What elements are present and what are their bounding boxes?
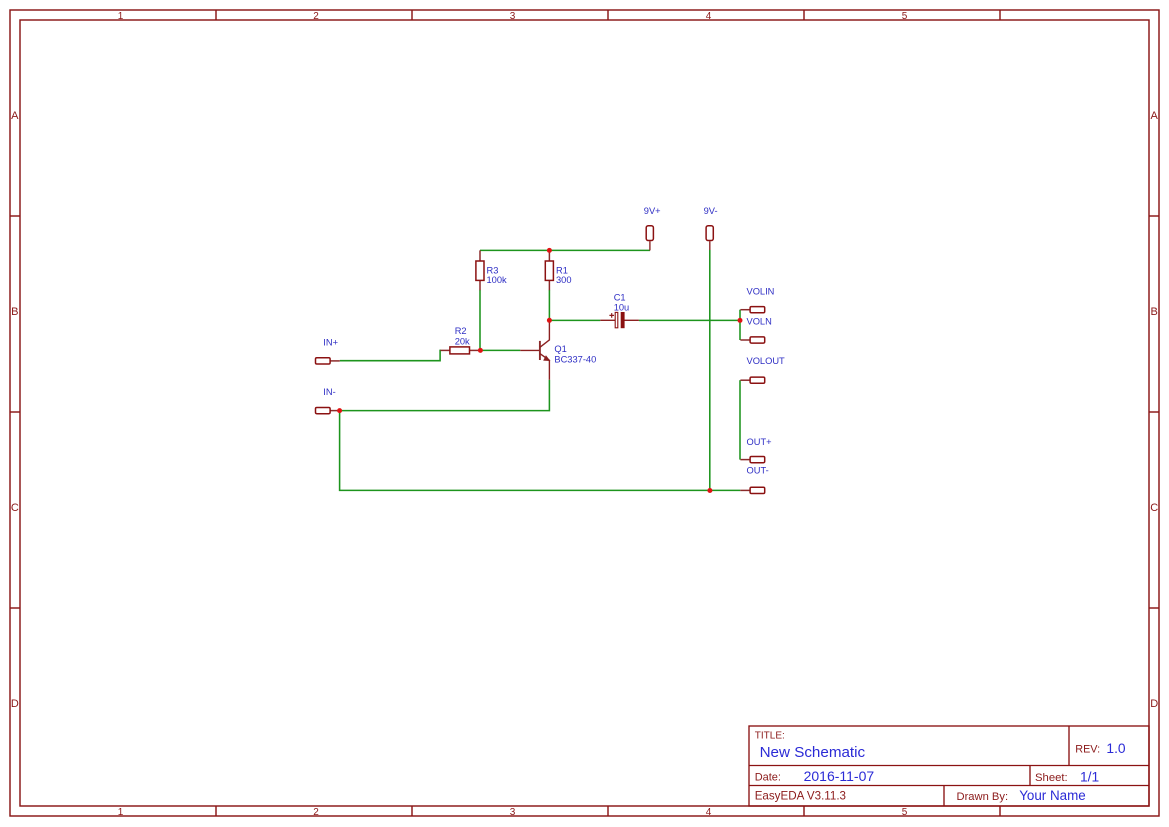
sheet value 1/1 xyxy=(1080,769,1099,784)
column tick marks bottom xyxy=(216,806,1000,816)
junction node IN- xyxy=(337,408,342,413)
connector IN- xyxy=(316,387,340,414)
title value New Schematic xyxy=(760,744,866,761)
junction node top rail R1 xyxy=(547,248,552,253)
row labels right xyxy=(1150,110,1158,710)
transistor Q1 xyxy=(520,320,596,380)
svg-text:IN-: IN- xyxy=(323,387,335,397)
wire emitter to IN- rail xyxy=(340,380,550,411)
wire IN- node down to bottom rail xyxy=(340,411,710,491)
svg-text:C: C xyxy=(11,502,19,514)
svg-text:20k: 20k xyxy=(455,336,470,346)
svg-text:TITLE:: TITLE: xyxy=(755,731,785,742)
svg-text:A: A xyxy=(11,110,19,122)
resistor R1 xyxy=(545,250,571,290)
svg-text:OUT-: OUT- xyxy=(747,466,769,476)
svg-text:100k: 100k xyxy=(487,275,508,285)
svg-text:A: A xyxy=(1151,110,1159,122)
junction node collector VOLN xyxy=(547,318,552,323)
title block label EasyEDA V3.11.3 xyxy=(755,789,846,802)
row tick marks right xyxy=(1149,216,1159,608)
svg-text:2: 2 xyxy=(313,807,319,818)
title block label Drawn By: xyxy=(957,791,1009,803)
svg-text:C1: C1 xyxy=(614,293,626,303)
title block outline xyxy=(749,726,1149,806)
svg-text:R2: R2 xyxy=(455,326,467,336)
svg-text:VOLOUT: VOLOUT xyxy=(747,356,786,366)
svg-text:B: B xyxy=(1151,306,1158,318)
svg-text:1: 1 xyxy=(118,11,124,22)
svg-text:IN+: IN+ xyxy=(323,337,338,347)
svg-text:C: C xyxy=(1150,502,1158,514)
svg-text:R1: R1 xyxy=(556,265,568,275)
svg-text:VOLIN: VOLIN xyxy=(747,287,775,297)
junction node base R2 xyxy=(478,348,483,353)
svg-text:9V-: 9V- xyxy=(704,206,718,216)
wire VOLN node to VOLN pin xyxy=(739,320,741,340)
svg-text:5: 5 xyxy=(902,807,908,818)
svg-text:10u: 10u xyxy=(614,302,630,312)
power flag 9V+ xyxy=(644,206,661,250)
column tick marks top xyxy=(216,10,1000,20)
connector VOLIN xyxy=(740,287,774,313)
resistor R2 xyxy=(441,326,481,354)
wire VOLOUT to OUT+ xyxy=(739,380,741,459)
svg-text:Q1: Q1 xyxy=(554,344,566,354)
svg-text:New Schematic: New Schematic xyxy=(760,744,866,761)
row tick marks left xyxy=(10,216,20,608)
svg-text:4: 4 xyxy=(706,11,712,22)
drawn by value Your Name xyxy=(1019,788,1085,803)
connector VOLN xyxy=(740,317,771,343)
svg-text:OUT+: OUT+ xyxy=(747,437,772,447)
wire R3 bottom to base node xyxy=(479,290,481,351)
wire top rail R3 to 9V+ xyxy=(480,249,650,251)
svg-text:2016-11-07: 2016-11-07 xyxy=(804,768,875,784)
svg-text:1: 1 xyxy=(118,807,124,818)
svg-text:9V+: 9V+ xyxy=(644,206,661,216)
wire C1 to VOLN node xyxy=(639,319,740,321)
title block label Sheet: xyxy=(1035,772,1068,784)
wire IN+ to R2 xyxy=(340,350,441,360)
date value 2016-11-07 xyxy=(804,768,875,784)
svg-text:5: 5 xyxy=(902,11,908,22)
resistor R3 xyxy=(476,250,507,290)
svg-text:BC337-40: BC337-40 xyxy=(554,354,596,364)
title block label TITLE: xyxy=(755,731,785,742)
column labels top xyxy=(118,11,908,22)
wire 9V- down to bottom rail xyxy=(709,250,711,491)
rev value 1.0 xyxy=(1106,741,1126,756)
svg-text:3: 3 xyxy=(510,807,516,818)
wire R1 bottom to collector node xyxy=(548,290,550,320)
connector IN+ xyxy=(316,337,340,364)
connector OUT+ xyxy=(740,437,771,463)
svg-text:D: D xyxy=(11,698,19,710)
svg-text:1/1: 1/1 xyxy=(1080,769,1099,784)
svg-text:VOLN: VOLN xyxy=(747,317,772,327)
column labels bottom xyxy=(118,807,908,818)
connector OUT- xyxy=(740,466,768,494)
junction node VOLN flag xyxy=(738,318,743,323)
svg-text:2: 2 xyxy=(313,11,319,22)
junction node bottom rail 9V- xyxy=(707,488,712,493)
svg-text:Drawn By:: Drawn By: xyxy=(957,791,1009,803)
title block label Date: xyxy=(755,772,781,784)
svg-text:Your Name: Your Name xyxy=(1019,788,1085,803)
wire VOLN node to VOLIN pin xyxy=(739,310,741,321)
svg-text:EasyEDA V3.11.3: EasyEDA V3.11.3 xyxy=(755,789,846,802)
power flag 9V- xyxy=(704,206,718,250)
row labels left xyxy=(11,110,19,710)
svg-text:D: D xyxy=(1150,698,1158,710)
svg-text:4: 4 xyxy=(706,807,712,818)
wire bottom rail to OUT- pin xyxy=(710,489,741,491)
wire R2 node to base pin xyxy=(480,349,520,351)
capacitor C1 xyxy=(600,293,639,328)
title block label REV: xyxy=(1075,743,1100,755)
svg-text:300: 300 xyxy=(556,275,572,285)
svg-text:R3: R3 xyxy=(487,265,499,275)
svg-text:REV:: REV: xyxy=(1075,743,1100,755)
wire collector node to C1 xyxy=(549,319,600,321)
svg-text:Date:: Date: xyxy=(755,772,781,784)
connector VOLOUT xyxy=(740,356,785,384)
svg-text:B: B xyxy=(11,306,18,318)
svg-text:1.0: 1.0 xyxy=(1106,741,1126,756)
svg-text:Sheet:: Sheet: xyxy=(1035,772,1068,784)
svg-text:3: 3 xyxy=(510,11,516,22)
